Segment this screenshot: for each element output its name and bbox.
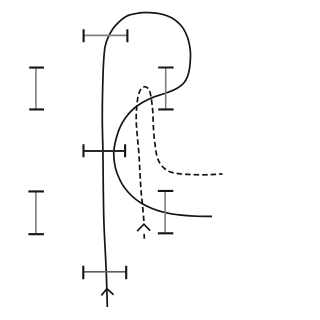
dashed route tail dash [143,234,145,239]
solid route arrowhead [101,289,113,296]
gate marker: bottom horizontal [83,266,126,280]
gate marker: right upper vertical [158,68,173,110]
gate marker: right lower vertical [158,191,174,233]
dashed route arrowhead [137,224,150,231]
gate marker: left lower vertical [28,191,44,234]
gate marker: top horizontal [84,29,128,42]
dashed route line [136,87,222,221]
gate marker: left upper vertical [29,68,44,110]
gate marker: middle horizontal [84,144,126,157]
solid route line [102,12,212,307]
